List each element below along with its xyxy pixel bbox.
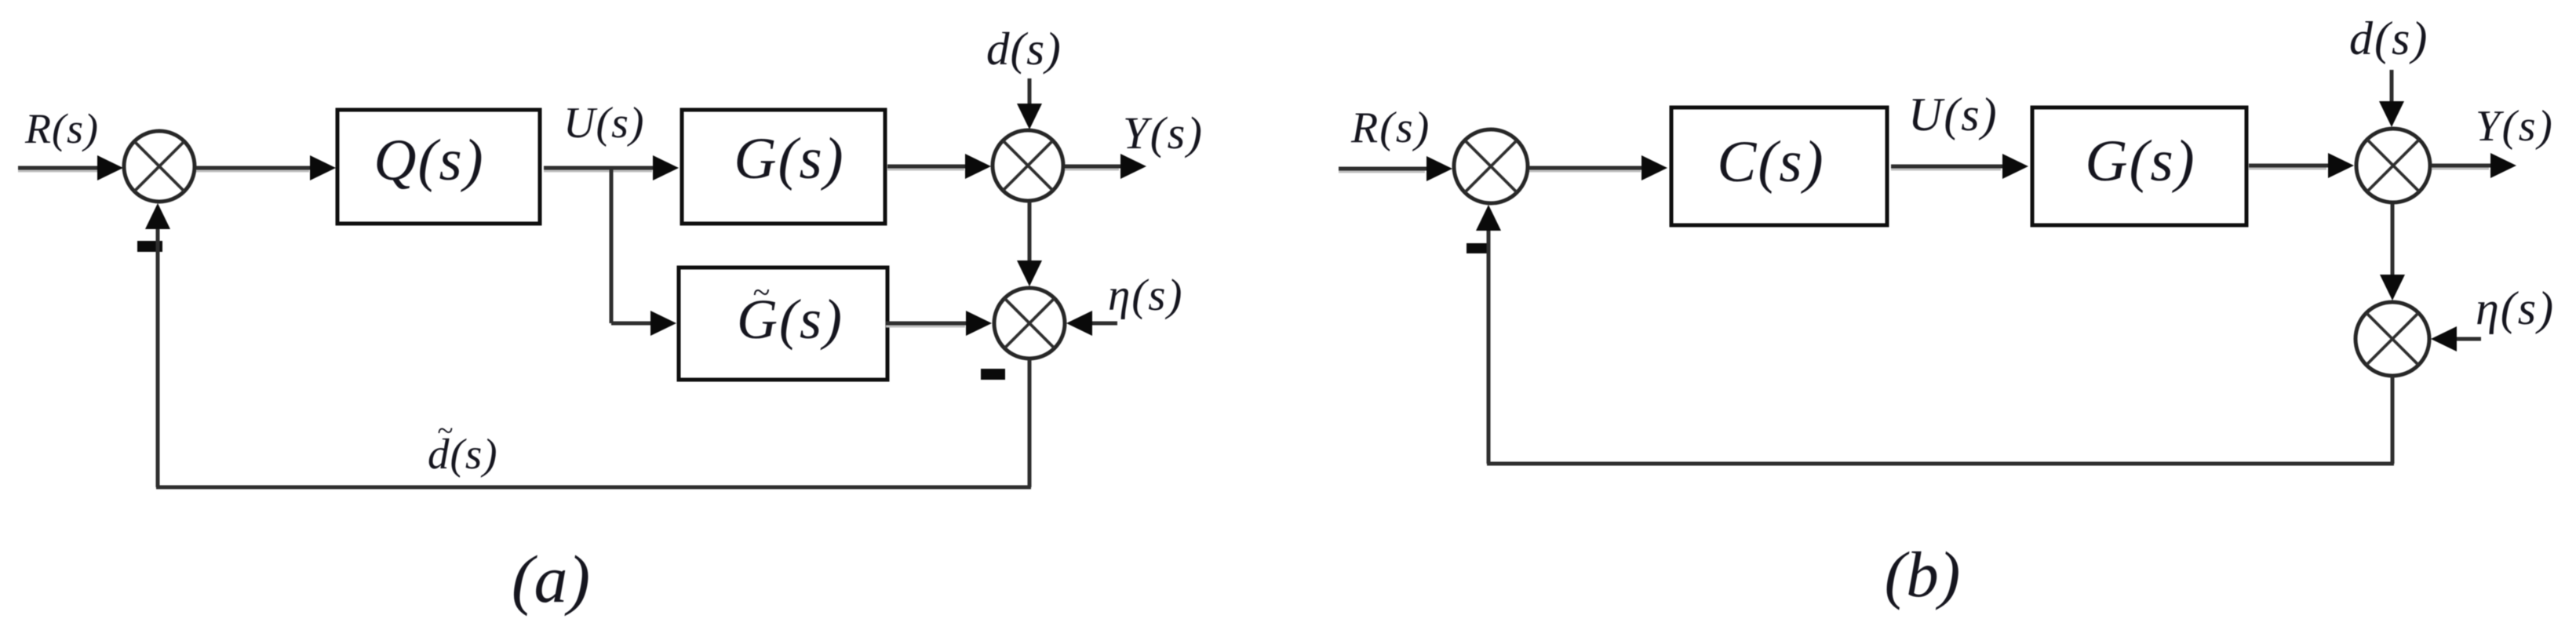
block G2: Gtilde(s) <box>679 268 887 380</box>
arrowhead into G(s) (b) <box>2002 154 2028 179</box>
minus sign at S1a feedback input <box>137 241 162 252</box>
svg-text:C(s): C(s) <box>1717 129 1824 195</box>
svg-text:η(s): η(s) <box>1108 271 1183 320</box>
svg-text:d(s): d(s) <box>2349 13 2428 64</box>
svg-text:G(s): G(s) <box>734 126 844 191</box>
wire G(s) to summer S2b <box>2249 166 2330 169</box>
summing junction S1a <box>124 131 195 202</box>
node Y(s) label (b) <box>2476 102 2554 151</box>
arrowhead into S3a top <box>1017 260 1042 286</box>
wire branch from U(s) node down <box>610 168 614 323</box>
svg-text:d(s): d(s) <box>986 23 1062 75</box>
summing junction S2a <box>993 130 1063 201</box>
block Q1: Q(s) <box>337 110 540 224</box>
wire branch into Gtilde(s) <box>611 322 652 326</box>
arrowhead into summer S1a <box>97 155 123 180</box>
wire C(s) to G(s) (b) <box>1891 166 2004 169</box>
arrowhead into S2b <box>2328 153 2354 178</box>
summing junction S2b <box>2356 129 2430 202</box>
node eta(s) label (b) <box>2476 282 2555 334</box>
svg-text:Q(s): Q(s) <box>373 128 484 193</box>
node dtilde(s) label <box>428 415 498 478</box>
summing junction S3b <box>2356 302 2429 376</box>
minus sign at S1b feedback input <box>1467 243 1490 253</box>
wire feedback left up (b) <box>1487 230 1491 464</box>
wire d(s) down into summer S2a <box>1028 78 1032 107</box>
node d(s) label (a) <box>986 23 1062 75</box>
wire Y(s) output (b) <box>2432 166 2492 169</box>
caption (b) <box>1885 538 1961 610</box>
svg-text:Y(s): Y(s) <box>1123 107 1204 158</box>
node R(s) label (a) <box>24 105 99 152</box>
wire R(s) input into summer S1b <box>1339 169 1428 172</box>
svg-text:Y(s): Y(s) <box>2476 102 2554 151</box>
wire feedback bottom (a) <box>156 486 1031 490</box>
node eta(s) label (a) <box>1108 271 1183 320</box>
svg-text:G(s): G(s) <box>2085 129 2195 194</box>
wire G(s) to summer S2a <box>887 166 967 169</box>
block C1: C(s) <box>1671 107 1887 225</box>
arrowhead Y(s) output (b) <box>2490 153 2516 178</box>
svg-text:(b): (b) <box>1885 538 1961 610</box>
svg-text:(a): (a) <box>512 541 590 617</box>
svg-text:R(s): R(s) <box>1350 104 1430 152</box>
svg-text:R(s): R(s) <box>24 105 99 152</box>
arrowhead d(s) into S2b <box>2379 101 2404 127</box>
arrowhead Gtilde into S3a <box>966 311 992 336</box>
svg-text:~: ~ <box>752 275 770 310</box>
svg-text:η(s): η(s) <box>2476 282 2555 334</box>
wire S2b down to summer S3b <box>2391 204 2395 276</box>
wire S1a to block Q(s) <box>196 168 312 171</box>
block G3: G(s) (b) <box>2032 107 2246 225</box>
node d(s) label (b) <box>2349 13 2428 64</box>
arrowhead Y(s) output (a) <box>1120 154 1146 179</box>
node U(s) label (a) <box>563 99 645 147</box>
node Y(s) label (a) <box>1123 107 1204 158</box>
svg-text:U(s): U(s) <box>1908 89 1998 140</box>
arrowhead eta(s) into S3a <box>1066 311 1092 336</box>
wire S2a down to summer S3a <box>1028 202 1032 264</box>
wire S3a down <box>1028 359 1032 487</box>
wire feedback bottom (b) <box>1487 462 2394 466</box>
arrowhead into G(s) (a) <box>653 155 679 180</box>
wire S1b to block C(s) <box>1529 168 1644 171</box>
arrowhead into Gtilde(s) <box>650 311 676 336</box>
arrowhead into Q(s) <box>310 155 336 180</box>
arrowhead into S2a <box>965 154 991 179</box>
summing junction S1b <box>1454 129 1528 203</box>
svg-text:U(s): U(s) <box>563 99 645 147</box>
wire feedback left up (a) <box>156 228 160 487</box>
wire eta(s) into S3b <box>2455 337 2481 341</box>
node U(s) label (b) <box>1908 89 1998 140</box>
minus sign at S3a <box>981 369 1005 380</box>
arrowhead feedback into S1b bottom <box>1476 205 1501 231</box>
wire Gtilde(s) to summer S3a <box>886 323 968 326</box>
block G1: G(s) (a) <box>682 110 885 224</box>
svg-text:~: ~ <box>437 415 453 447</box>
wire S3b down <box>2391 376 2395 464</box>
wire R(s) input into summer S1a <box>18 168 100 171</box>
summing junction S3a <box>994 288 1065 359</box>
arrowhead eta(s) into S3b <box>2431 326 2457 351</box>
wire eta(s) into S3a <box>1092 322 1117 326</box>
wire Q(s) to G(s) (a) <box>544 168 655 171</box>
wire Y(s) output (a) <box>1065 166 1122 169</box>
arrowhead into C(s) <box>1641 155 1667 180</box>
arrowhead into S3b top <box>2380 275 2405 300</box>
node R(s) label (b) <box>1350 104 1430 152</box>
arrowhead feedback into S1a bottom <box>145 203 170 229</box>
caption (a) <box>512 541 590 617</box>
arrowhead d(s) into S2a <box>1017 104 1042 129</box>
wire d(s) down into summer S2b <box>2390 70 2394 103</box>
arrowhead into summer S1b <box>1426 156 1452 181</box>
